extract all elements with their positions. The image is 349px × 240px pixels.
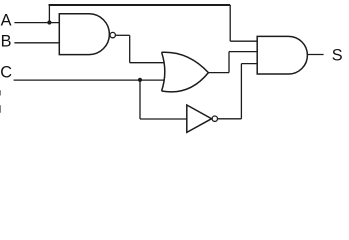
wire OR out to AND mid input	[229, 51, 257, 53]
wire nand out to OR top input	[130, 62, 164, 64]
not bubble	[212, 116, 217, 121]
wire nand out right	[116, 34, 130, 36]
wire nand out down	[129, 35, 131, 62]
wire B horizontal	[14, 42, 59, 44]
not gate U3 triangle	[187, 105, 212, 132]
wire A horizontal	[14, 22, 59, 24]
wire top horizontal	[49, 4, 231, 6]
svg-text:S: S	[332, 46, 343, 64]
node junction on A	[47, 20, 51, 24]
or gate U2 body	[162, 52, 209, 92]
nand bubble	[110, 32, 115, 37]
svg-text:B: B	[1, 33, 12, 51]
wire C horizontal	[14, 79, 165, 81]
wire OR out right	[208, 72, 229, 74]
wire to NOT input	[140, 118, 187, 120]
wire S output	[307, 54, 323, 56]
wire OR out up	[228, 52, 230, 73]
wire to AND top input	[230, 40, 257, 42]
wire junction A up	[48, 5, 50, 23]
wire right side down	[229, 5, 231, 41]
wire junction C down	[139, 80, 141, 119]
svg-text:A: A	[1, 12, 12, 30]
left edge artifact tick 2	[0, 105, 2, 113]
node junction on C	[138, 78, 142, 82]
svg-text:C: C	[0, 64, 12, 82]
nand gate U1 body	[59, 14, 109, 55]
and gate U4 body	[257, 36, 307, 74]
left edge artifact tick 1	[0, 90, 2, 95]
wire NOT out up	[240, 64, 242, 119]
wire NOT out right	[218, 118, 241, 120]
wire NOT out to AND bottom input	[241, 63, 257, 65]
